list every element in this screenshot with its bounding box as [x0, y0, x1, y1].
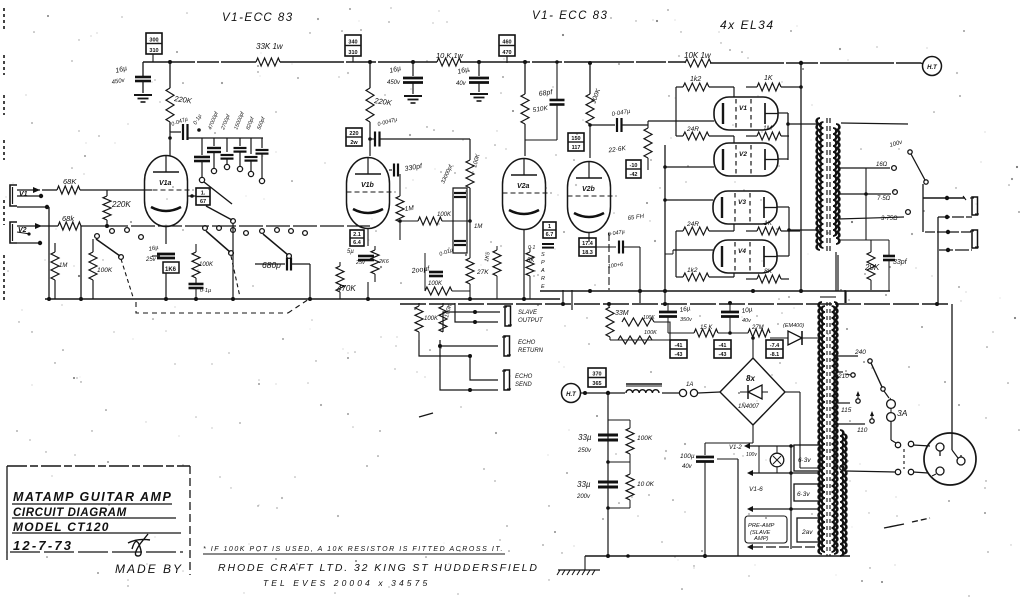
- title MATAMP GUITAR AMP: [12, 490, 172, 504]
- wire jack2 out drop: [79, 226, 83, 301]
- footnote 100K pot: [203, 546, 505, 554]
- primary tap 240: [837, 349, 889, 398]
- echo send jack: [502, 370, 533, 390]
- HT terminal circle: [921, 57, 942, 76]
- resistor 1M phase: [470, 221, 482, 240]
- mains plug: [924, 433, 976, 485]
- resistor 1K5: [484, 246, 501, 299]
- preamp slave label: [745, 516, 787, 543]
- resistor 1M tube2 screen: [746, 125, 789, 140]
- HT supply rail: [143, 62, 921, 63]
- mains transformer right winding: [832, 302, 839, 554]
- voltage test box 300/110: [146, 33, 162, 62]
- selector arm from cap bank: [204, 182, 232, 204]
- bias test box a: [670, 340, 687, 358]
- resistor 100K V2b anode: [586, 87, 602, 158]
- dashed gang link wafer B: [231, 256, 240, 297]
- speaker jack 1: [970, 197, 979, 215]
- svg-text:TEL EVES 20004 x 34575: TEL EVES 20004 x 34575: [263, 578, 430, 588]
- bridge rectifier 8x IN4007: [720, 358, 785, 425]
- capacitor 2000uf bypass: [410, 265, 443, 276]
- OT tap 3.75ohm: [838, 210, 910, 222]
- title MADE BY: [115, 562, 183, 576]
- title CIRCUIT DIAGRAM: [12, 507, 176, 519]
- resistor 1k2 tube4 grid: [676, 250, 734, 281]
- capacitor 16uF 450v (node 3): [456, 60, 489, 101]
- svg-text:-10: -10: [630, 163, 638, 169]
- resistor 100K slave a: [415, 303, 439, 340]
- svg-text:240: 240: [854, 349, 866, 356]
- svg-text:5µ: 5µ: [347, 249, 354, 255]
- svg-text:H.T: H.T: [927, 65, 938, 71]
- svg-text:ECHO: ECHO: [515, 374, 533, 380]
- svg-text:MODEL CT120: MODEL CT120: [13, 520, 110, 534]
- capacitor 820pf tone: [245, 116, 258, 177]
- diode EM400: [770, 323, 820, 345]
- grid feed wire tube2: [663, 165, 714, 169]
- EL34 V1 (top): [714, 97, 778, 130]
- svg-text:25v: 25v: [145, 257, 157, 263]
- svg-text:6·3v: 6·3v: [797, 491, 810, 498]
- bias box -10/-42: [626, 160, 641, 178]
- jack V2 small stub: [17, 232, 31, 236]
- rotary wafer C contacts: [260, 228, 308, 259]
- pot 5K presence: [526, 248, 535, 299]
- svg-text:-43: -43: [719, 352, 727, 358]
- svg-text:100K: 100K: [643, 315, 655, 321]
- svg-text:250v: 250v: [577, 448, 592, 454]
- svg-text:10 0K: 10 0K: [637, 481, 655, 488]
- resistor 33K 1W on rail: [256, 42, 284, 66]
- bias box 150/117: [568, 133, 584, 151]
- svg-text:3·75Ω: 3·75Ω: [881, 216, 898, 222]
- svg-text:-43: -43: [675, 352, 683, 358]
- capacitor 0.1u below: [189, 284, 212, 299]
- svg-text:6.7: 6.7: [546, 232, 554, 238]
- resistor 68K (input V2): [42, 214, 104, 230]
- svg-text:200v: 200v: [576, 494, 591, 500]
- voltage box 220 group: [346, 128, 362, 146]
- bottom right stray dashes: [884, 518, 930, 528]
- mains transformer left winding: [818, 302, 825, 554]
- bridge bottom wire: [705, 425, 753, 443]
- svg-text:100K: 100K: [437, 212, 452, 218]
- heater row wire 4: [747, 544, 822, 550]
- bias test box b: [714, 340, 731, 358]
- resistor 220K V1b anode load: [366, 88, 393, 122]
- first tone cap to selector: [194, 138, 210, 183]
- capacitor 33pf feedback: [866, 240, 908, 291]
- resistor 29K feedback: [864, 240, 880, 290]
- heater winding box 6.3v b: [794, 484, 820, 501]
- heater label V1-2: [729, 445, 757, 458]
- junction on rail: [168, 60, 172, 64]
- svg-text:2w: 2w: [350, 140, 358, 146]
- speaker feed vertical: [922, 184, 924, 232]
- svg-text:R: R: [541, 276, 545, 282]
- svg-text:10 K 1w: 10 K 1w: [436, 51, 464, 60]
- wire HT node down: [607, 393, 609, 556]
- triode V1a: [145, 156, 194, 227]
- svg-text:29K: 29K: [864, 263, 880, 272]
- svg-text:25v: 25v: [355, 260, 366, 266]
- wire wafer area drops: [233, 223, 312, 301]
- svg-text:100K: 100K: [199, 262, 214, 268]
- slave output jack: [503, 306, 544, 326]
- grid feed wire tube3: [663, 198, 713, 202]
- capacitor 16uF 450V (first filter): [111, 65, 151, 93]
- output transformer secondary winding: [833, 124, 840, 244]
- mains transformer extra winding: [840, 430, 847, 556]
- anode link pair A: [778, 113, 790, 160]
- resistor 68K (input V1): [42, 177, 145, 194]
- svg-text:V2b: V2b: [582, 186, 596, 193]
- resistor 510K: [521, 94, 529, 156]
- svg-text:-41: -41: [675, 343, 683, 349]
- phone line: [263, 578, 430, 588]
- capacitor 3300pf: [389, 163, 424, 177]
- heater block verticals: [717, 444, 793, 556]
- speaker return vertical: [937, 217, 939, 303]
- svg-text:H.T: H.T: [566, 392, 577, 398]
- tone bank bus wire: [168, 132, 263, 140]
- EL34 V3: [713, 191, 777, 224]
- svg-text:1K6: 1K6: [165, 267, 177, 273]
- svg-text:40v: 40v: [682, 464, 693, 470]
- resistor 33M vertical: [606, 303, 629, 340]
- svg-text:1M: 1M: [59, 263, 67, 269]
- svg-text:40v: 40v: [742, 318, 752, 324]
- transformer top feed: [820, 297, 836, 471]
- rotary wafer A contacts: [95, 228, 144, 260]
- resistor 470K: [336, 262, 356, 299]
- svg-text:68k: 68k: [62, 214, 75, 223]
- lower supply rail: [400, 302, 951, 306]
- primary tap 115: [837, 391, 860, 414]
- svg-text:340: 340: [348, 40, 357, 46]
- V1a grid wire from 68K: [145, 189, 152, 191]
- svg-text:V1: V1: [19, 191, 28, 198]
- bias test box c: [766, 340, 783, 358]
- svg-text:5K: 5K: [527, 258, 535, 264]
- svg-text:AMP): AMP): [753, 536, 769, 542]
- OT top lead / 100V tap: [841, 123, 928, 184]
- svg-text:2K6: 2K6: [378, 259, 390, 265]
- anode lead pair A to OT: [788, 113, 822, 124]
- svg-text:350v: 350v: [680, 317, 693, 323]
- svg-text:SLAVE: SLAVE: [518, 310, 538, 316]
- triode V2a: [503, 159, 552, 230]
- left ground rail: [45, 297, 560, 301]
- title MODEL CT120: [12, 520, 181, 534]
- svg-text:0·1µ: 0·1µ: [200, 288, 211, 294]
- resistor 100K coupling: [398, 212, 472, 225]
- choke (smoothing): [626, 384, 662, 393]
- resistor 27K: [466, 240, 489, 301]
- slave wiring: [443, 303, 500, 332]
- wire HT to choke: [581, 391, 625, 395]
- jack V1 ring wire: [17, 194, 43, 198]
- mains transformer core: [827, 302, 830, 556]
- resistor 100K horizontal a: [622, 315, 655, 326]
- svg-text:1K: 1K: [764, 75, 773, 82]
- svg-text:1k2: 1k2: [687, 267, 698, 274]
- anode link pair B: [777, 207, 791, 256]
- capacitor 0.0047u to V1b grid: [370, 117, 470, 147]
- feedback loop caps 33000pf/0.01u: [440, 164, 467, 253]
- label V1-ECC83 (second preamp): [532, 10, 608, 22]
- capacitor 10u 450v bias: [721, 301, 753, 335]
- echo return jack: [502, 336, 544, 356]
- svg-text:1M: 1M: [763, 125, 773, 132]
- jack V2 tip wire: [17, 223, 42, 229]
- EL34 V2: [714, 143, 778, 176]
- svg-text:310: 310: [348, 50, 357, 56]
- svg-text:8K: 8K: [764, 268, 773, 275]
- input jack V1: [10, 185, 28, 206]
- heater label V1-6: [749, 486, 763, 493]
- label 65PH: [627, 214, 645, 222]
- svg-text:1M: 1M: [474, 224, 482, 230]
- psu ground: [557, 570, 600, 575]
- svg-text:24R: 24R: [686, 221, 699, 228]
- svg-text:V3: V3: [738, 199, 746, 206]
- voltage box 370/365: [588, 368, 606, 387]
- feedback bottom wire: [837, 255, 839, 291]
- capacitor 16u 350v bias: [659, 303, 693, 333]
- svg-text:33pf: 33pf: [893, 259, 908, 266]
- speaker wire 2: [938, 215, 972, 219]
- plug pin E: [952, 433, 965, 465]
- bias box 17.4/18.3: [579, 238, 596, 256]
- voltage box 460/470: [499, 35, 515, 63]
- ground below 16uF: [134, 95, 152, 102]
- transformer bottom terminal: [840, 466, 846, 471]
- output transformer core: [827, 118, 830, 252]
- svg-text:33M: 33M: [615, 310, 629, 317]
- resistor 8K tube4 screen: [746, 268, 789, 283]
- switch gang dashes: [903, 449, 905, 469]
- resistor 1K tube1 screen: [746, 75, 800, 97]
- svg-text:2av: 2av: [801, 529, 813, 536]
- plug pin L: [936, 443, 944, 456]
- svg-text:6.4: 6.4: [353, 240, 362, 246]
- speaker wire 4: [939, 248, 972, 252]
- resistor 24R tube3 grid: [673, 221, 734, 250]
- voltage box 1/67 V2a: [543, 222, 556, 238]
- svg-text:100v: 100v: [746, 452, 757, 458]
- heater row wire 2: [747, 446, 819, 476]
- svg-text:V1a: V1a: [159, 180, 172, 187]
- right edge drop: [951, 304, 953, 433]
- svg-text:460: 460: [502, 40, 511, 46]
- V2b cathode wires: [588, 233, 590, 242]
- resistor 100K tail: [425, 281, 470, 295]
- svg-text:470: 470: [502, 50, 511, 56]
- svg-text:ECHO: ECHO: [518, 340, 536, 346]
- cap in loop top: [454, 193, 466, 197]
- svg-text:2.1: 2.1: [353, 232, 361, 238]
- svg-text:MADE BY: MADE BY: [115, 562, 183, 576]
- svg-text:117: 117: [572, 145, 581, 151]
- svg-text:-41: -41: [719, 343, 727, 349]
- grid feed wire tube4: [665, 250, 713, 254]
- svg-text:* IF 100K POT IS USED, A 10K R: * IF 100K POT IS USED, A 10K RESISTOR IS…: [203, 546, 504, 553]
- resistor 1K tube3 screen: [746, 220, 800, 235]
- capacitor 33u 200v: [576, 480, 618, 500]
- svg-text:RETURN: RETURN: [518, 348, 544, 354]
- screen rail: [540, 289, 890, 303]
- label 0.1u diagonal: [193, 113, 204, 131]
- dashed gang rail: [136, 299, 309, 313]
- winding box 200v: [797, 518, 822, 542]
- svg-text:33µ: 33µ: [578, 433, 592, 442]
- cap in loop bottom: [439, 241, 466, 258]
- wire rail drop V2a: [523, 60, 527, 94]
- capacitor 47000pf tone: [207, 111, 221, 174]
- output transformer primary winding: [816, 118, 824, 250]
- resistor 1k2 tube1 grid: [676, 76, 734, 121]
- resistor 100K slave b: [439, 302, 454, 332]
- svg-text:A: A: [540, 268, 545, 274]
- resistor 220K (V1a anode load): [166, 88, 193, 122]
- primary tap 210: [837, 372, 855, 380]
- svg-text:P: P: [541, 260, 545, 266]
- wire rail drop V2b: [588, 61, 592, 94]
- V1b cathode resistor 2K6: [371, 246, 390, 282]
- resistor 24R tube2 grid: [676, 121, 734, 143]
- svg-text:PRE-AMP: PRE-AMP: [748, 523, 775, 529]
- resistor 22.6K grid: [607, 125, 652, 170]
- grid wire V2 input to switch: [104, 225, 370, 227]
- capacitor 0.047u to output stage: [588, 109, 648, 132]
- svg-text:220K: 220K: [111, 200, 131, 209]
- capacitor 68pF: [525, 60, 565, 140]
- OT tap 7.5ohm: [838, 190, 897, 202]
- wire V1b cathode down: [366, 229, 370, 301]
- svg-text:0·1: 0·1: [528, 245, 535, 251]
- voltage box 340/310: [345, 35, 361, 62]
- svg-text:450v: 450v: [387, 80, 401, 86]
- psu ground stem: [584, 556, 586, 570]
- svg-text:V1b: V1b: [361, 182, 375, 189]
- mains switch pole 1: [891, 440, 930, 448]
- wire rail corner to filter cap: [142, 62, 144, 76]
- svg-text:4x EL34: 4x EL34: [720, 18, 775, 32]
- svg-text:1: 1: [548, 224, 551, 230]
- svg-text:100K: 100K: [644, 330, 657, 336]
- long vertical to PSU x609: [608, 233, 610, 290]
- OT tap wires: [838, 168, 868, 240]
- svg-text:115: 115: [841, 407, 852, 414]
- rotary wafer B contacts: [203, 226, 249, 256]
- switch arm below voltage box: [206, 206, 235, 223]
- capacitor 15000pf tone: [233, 111, 246, 172]
- capacitor 680p on wafer C: [255, 258, 310, 271]
- svg-text:V1-6: V1-6: [749, 486, 763, 493]
- svg-text:100K: 100K: [637, 435, 653, 442]
- resistor 100K right of V1a cathode: [192, 244, 214, 283]
- speaker wire 1: [923, 196, 966, 200]
- resistor 100K below wafer A: [89, 239, 113, 299]
- capacitor 16uF 450v (node 2): [387, 60, 423, 103]
- wire choke to fuse: [662, 392, 679, 394]
- wire rail to 220K: [169, 62, 171, 88]
- svg-text:7·5Ω: 7·5Ω: [877, 196, 891, 202]
- capacitor 33u 250v: [577, 433, 618, 464]
- svg-text:100µ: 100µ: [680, 453, 695, 460]
- dashed gang link waferA: [121, 259, 133, 297]
- svg-text:310: 310: [149, 48, 158, 54]
- speaker wire 3: [925, 230, 971, 234]
- svg-text:17.4: 17.4: [582, 241, 594, 247]
- jack V2 sleeve wire: [17, 241, 42, 245]
- resistor 10K 1W on rail (middle): [436, 51, 464, 66]
- title box frame: [7, 466, 190, 575]
- svg-text:V1-2: V1-2: [729, 445, 742, 451]
- svg-text:V4: V4: [738, 248, 746, 255]
- jack V1 sleeve wire: [17, 205, 49, 209]
- svg-text:12-7-73: 12-7-73: [13, 538, 73, 553]
- svg-text:1k2: 1k2: [690, 76, 701, 83]
- svg-text:E: E: [541, 284, 545, 290]
- svg-text:1N4007: 1N4007: [738, 404, 760, 410]
- voltage box at V1a output: [196, 188, 210, 205]
- resistor 100K bleeder b: [606, 462, 654, 510]
- EL34 V4 (bottom): [713, 240, 777, 273]
- V1a cathode drop: [165, 227, 167, 244]
- HT terminal circle (psu): [562, 384, 581, 403]
- svg-text:-42: -42: [630, 172, 638, 178]
- svg-text:3A: 3A: [897, 408, 908, 418]
- svg-text:33K 1w: 33K 1w: [256, 42, 284, 51]
- anode lead pair B to OT: [789, 229, 822, 231]
- capacitor 0.047u lower: [596, 229, 640, 290]
- cap 0.1 near V2a: [528, 244, 554, 251]
- capacitor 100u 40v: [680, 443, 714, 558]
- svg-text:24R: 24R: [686, 126, 699, 133]
- plug pin N: [932, 467, 944, 476]
- rail link verticals: [563, 252, 845, 310]
- svg-text:-7.4: -7.4: [770, 343, 780, 349]
- svg-text:150: 150: [571, 136, 580, 142]
- V2a cathode parts: [522, 230, 526, 301]
- svg-text:110: 110: [857, 427, 868, 434]
- svg-text:680p: 680p: [262, 260, 281, 270]
- svg-text:S: S: [541, 252, 545, 258]
- heater row top wire: [744, 443, 794, 449]
- svg-text:100K: 100K: [97, 267, 113, 274]
- svg-text:27K: 27K: [476, 269, 489, 276]
- resistor 1K6 box: [163, 262, 179, 299]
- svg-text:27M: 27M: [751, 325, 764, 331]
- svg-text:1A: 1A: [686, 382, 693, 388]
- label 4x EL34 output valves: [720, 18, 775, 32]
- primary tap 110: [837, 411, 874, 434]
- speaker jack 2: [970, 230, 979, 248]
- page margin marks: [3, 8, 5, 300]
- V1a anode wire: [169, 138, 171, 156]
- V1b cathode box: [347, 230, 364, 255]
- svg-text:OUTPUT: OUTPUT: [518, 318, 544, 324]
- svg-text:18.3: 18.3: [582, 250, 593, 256]
- stray dash mark: [419, 413, 433, 417]
- wire 220K to V1b anode: [368, 122, 372, 156]
- resistor 27M bias: [748, 325, 770, 337]
- svg-text:V1-ECC 83: V1-ECC 83: [222, 12, 294, 24]
- maker line: [218, 562, 539, 574]
- svg-text:68K: 68K: [63, 177, 77, 186]
